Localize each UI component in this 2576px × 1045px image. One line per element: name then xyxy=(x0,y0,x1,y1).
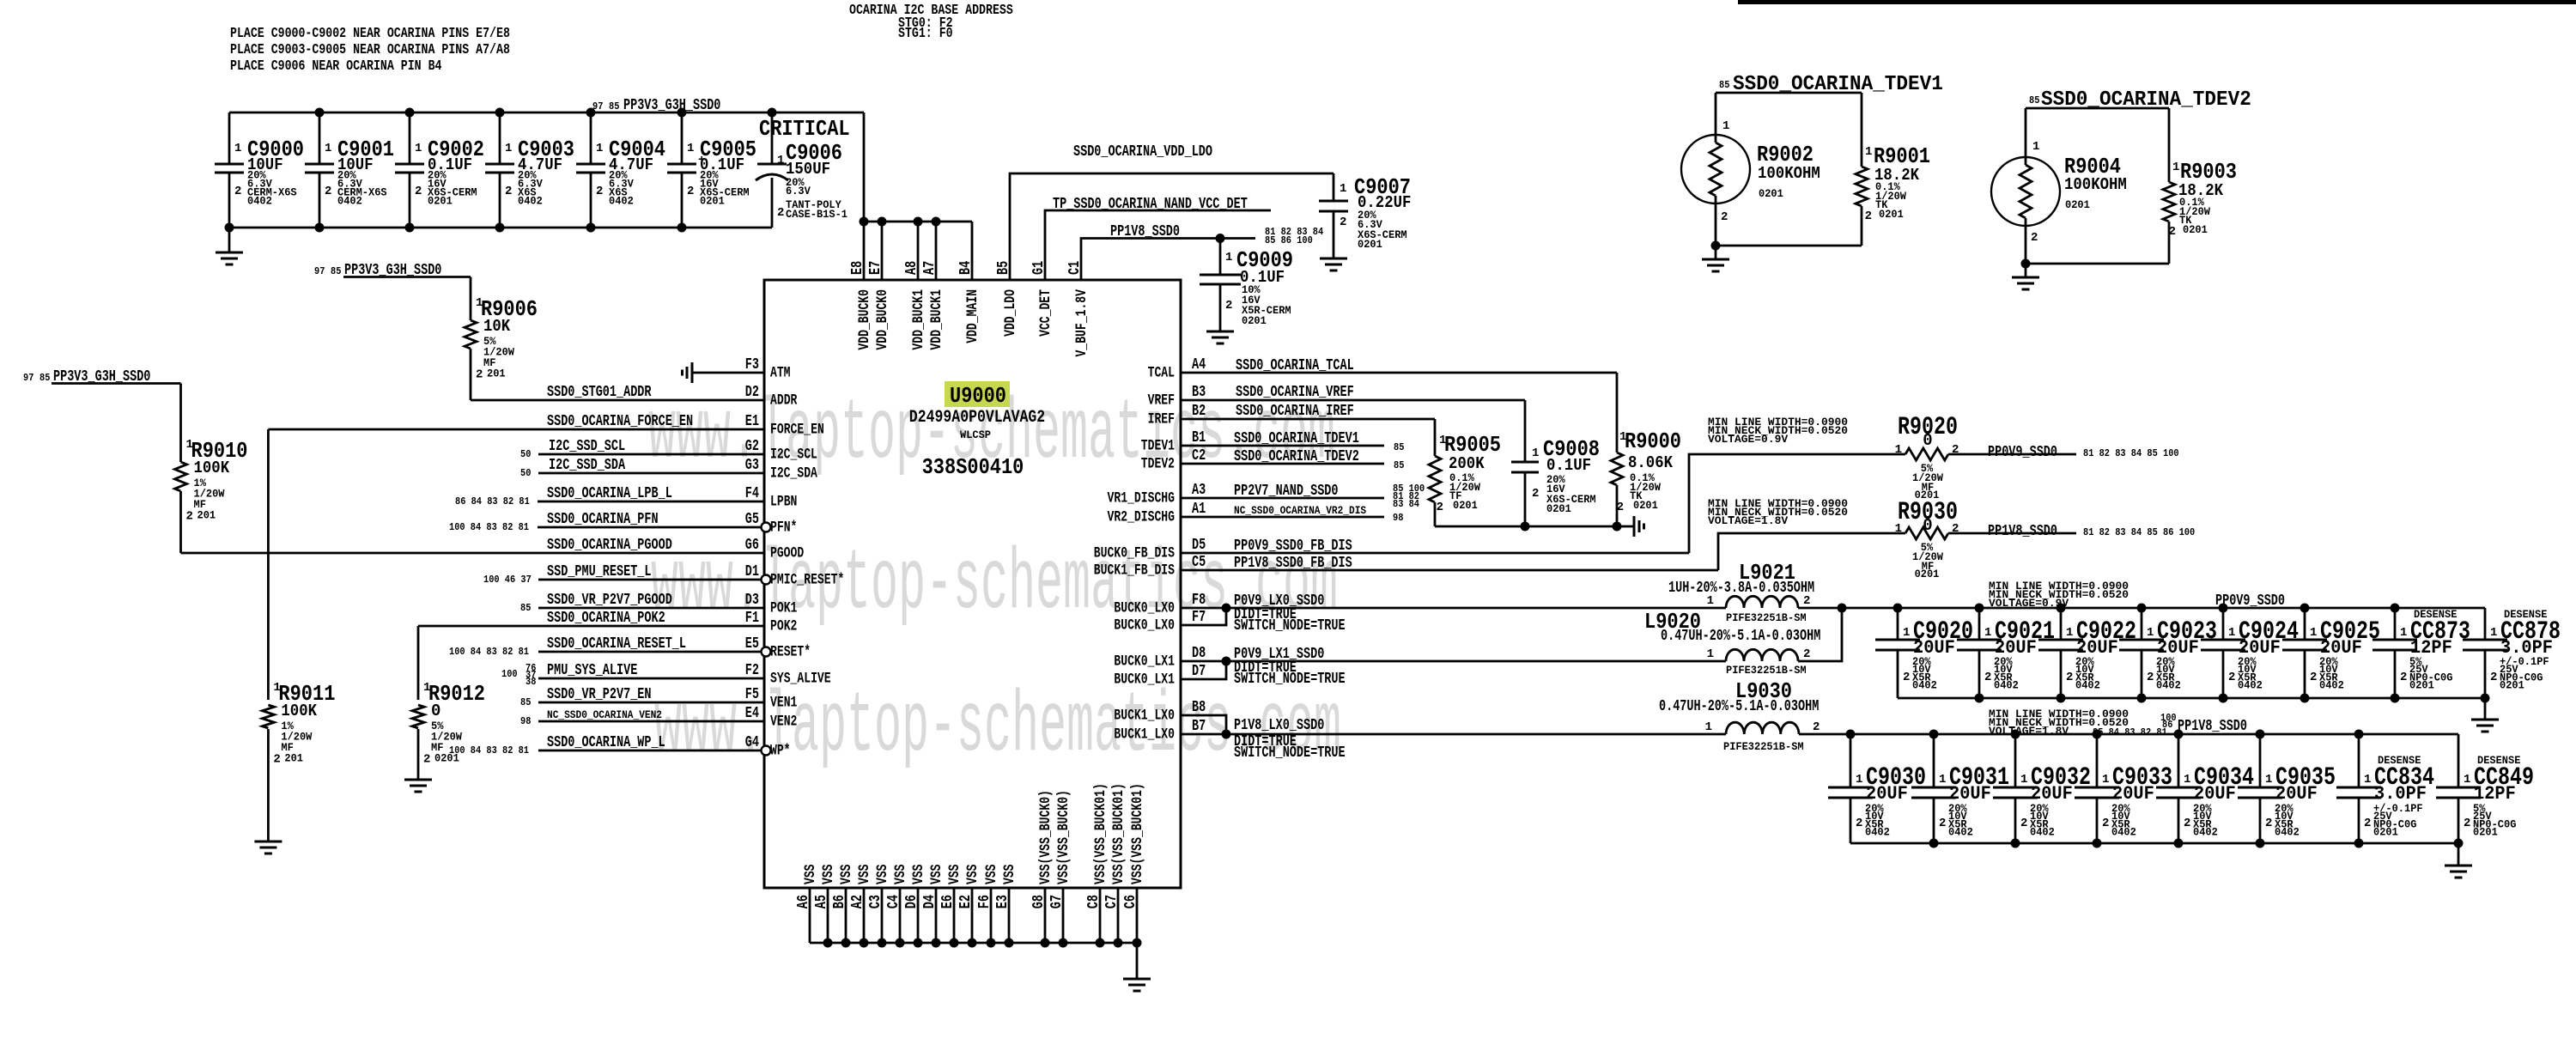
svg-text:2: 2 xyxy=(186,510,193,524)
svg-text:D3: D3 xyxy=(745,592,759,609)
svg-text:SSD0_OCARINA_TDEV1: SSD0_OCARINA_TDEV1 xyxy=(1234,430,1359,447)
svg-text:338S00410: 338S00410 xyxy=(922,454,1024,480)
svg-text:TDEV1: TDEV1 xyxy=(1141,438,1175,455)
svg-text:100K: 100K xyxy=(194,459,230,477)
svg-text:1: 1 xyxy=(1722,119,1729,133)
svg-text:0402: 0402 xyxy=(1948,826,1973,839)
net SSD0_OCARINA_TDEV2 wire xyxy=(2026,107,2169,110)
svg-text:1: 1 xyxy=(325,142,331,155)
svg-text:2: 2 xyxy=(2184,817,2190,830)
svg-text:B7: B7 xyxy=(1192,718,1206,735)
svg-text:2: 2 xyxy=(2490,671,2497,684)
svg-text:VREF: VREF xyxy=(1148,392,1175,410)
svg-text:97: 97 xyxy=(314,265,325,277)
svg-text:2: 2 xyxy=(2066,671,2073,684)
net PP1V8_SSD0 wire xyxy=(1081,239,1255,281)
svg-text:B8: B8 xyxy=(1192,699,1206,716)
svg-text:VDD_LDO: VDD_LDO xyxy=(1002,289,1019,337)
svg-text:VSS(VSS_BUCK0): VSS(VSS_BUCK0) xyxy=(1055,790,1072,884)
svg-text:F4: F4 xyxy=(745,485,759,502)
svg-text:VEN1: VEN1 xyxy=(770,695,797,712)
capacitor C9022 xyxy=(2060,608,2063,640)
svg-text:0201: 0201 xyxy=(2409,679,2434,692)
net PP1V8_SSD0 stub xyxy=(1948,532,2076,535)
svg-text:100 84 83 82 81: 100 84 83 82 81 xyxy=(449,521,529,533)
svg-text:1: 1 xyxy=(2228,626,2235,640)
svg-text:ATM: ATM xyxy=(770,365,791,382)
svg-text:1: 1 xyxy=(2066,626,2073,640)
capacitor CC834 xyxy=(2358,734,2360,787)
resistor R9010 pull-up on PGOOD xyxy=(52,382,181,385)
svg-text:F1: F1 xyxy=(745,610,759,627)
svg-text:VSS: VSS xyxy=(983,865,1000,885)
svg-text:VSS(VSS_BUCK01): VSS(VSS_BUCK01) xyxy=(1129,783,1146,884)
svg-text:VCC_DET: VCC_DET xyxy=(1037,289,1054,337)
wire PP1V8 bank bottom bus xyxy=(1850,842,2458,845)
svg-text:2: 2 xyxy=(1532,487,1539,501)
resistor R9006 pull-up on ADDR xyxy=(343,276,471,278)
svg-text:1: 1 xyxy=(2490,626,2497,640)
svg-text:PP0V9_SSD0_FB_DIS: PP0V9_SSD0_FB_DIS xyxy=(1234,538,1352,555)
svg-text:85: 85 xyxy=(520,696,531,708)
svg-text:NC_SSD0_OCARINA_VEN2: NC_SSD0_OCARINA_VEN2 xyxy=(547,708,662,721)
svg-text:0: 0 xyxy=(431,702,440,720)
svg-text:SSD0_OCARINA_VREF: SSD0_OCARINA_VREF xyxy=(1236,384,1354,401)
svg-text:2: 2 xyxy=(2020,817,2027,830)
pin G7 VSS(VSS_BUCK0) xyxy=(1062,888,1065,943)
svg-text:0201: 0201 xyxy=(2065,198,2090,211)
svg-text:2: 2 xyxy=(2400,671,2407,684)
svg-text:A3: A3 xyxy=(1192,482,1206,499)
svg-text:0201: 0201 xyxy=(2183,223,2208,236)
svg-text:VR2_DISCHG: VR2_DISCHG xyxy=(1108,509,1176,526)
svg-text:G8: G8 xyxy=(1030,895,1048,908)
svg-text:BUCK0_FB_DIS: BUCK0_FB_DIS xyxy=(1094,545,1175,562)
svg-text:0201: 0201 xyxy=(1915,568,1940,580)
svg-text:1UH-20%-3.8A-0.035OHM: 1UH-20%-3.8A-0.035OHM xyxy=(1668,580,1814,597)
ground for PP0V9 bank xyxy=(2484,698,2487,720)
svg-text:85: 85 xyxy=(1394,459,1404,471)
svg-text:SSD0_OCARINA_RESET_L: SSD0_OCARINA_RESET_L xyxy=(547,635,686,653)
ground for PP1V8 bank xyxy=(2458,843,2460,866)
wire L9021 out to PP0V9 rail xyxy=(1798,607,2485,610)
svg-text:2: 2 xyxy=(2031,231,2038,245)
svg-text:PLACE C9006 NEAR OCARINA PIN B: PLACE C9006 NEAR OCARINA PIN B4 xyxy=(230,58,442,75)
svg-text:STG1: F0: STG1: F0 xyxy=(898,26,953,42)
svg-text:0: 0 xyxy=(1923,431,1932,450)
svg-text:98: 98 xyxy=(1393,512,1403,524)
wire R9002/R9001 bottom xyxy=(1716,245,1862,247)
svg-text:PFN*: PFN* xyxy=(770,519,797,537)
svg-text:2: 2 xyxy=(325,185,331,198)
svg-text:0402: 0402 xyxy=(1994,679,2019,692)
capacitor C9031 xyxy=(1933,734,1935,787)
svg-text:1: 1 xyxy=(1895,522,1902,536)
svg-text:SSD0_OCARINA_VDD_LDO: SSD0_OCARINA_VDD_LDO xyxy=(1073,143,1212,161)
svg-text:VDD_BUCK0: VDD_BUCK0 xyxy=(856,289,873,350)
capacitor C9001 xyxy=(319,112,321,164)
svg-text:2: 2 xyxy=(1856,817,1862,830)
svg-text:C4: C4 xyxy=(885,895,902,908)
svg-text:VDD_BUCK0: VDD_BUCK0 xyxy=(874,289,891,350)
capacitor CC873 xyxy=(2394,608,2397,640)
svg-text:F6: F6 xyxy=(976,895,993,908)
capacitor C9006 (tantalum, CRITICAL) xyxy=(771,112,774,164)
svg-text:I2C_SSD_SCL: I2C_SSD_SCL xyxy=(549,438,625,455)
capacitor C9020 xyxy=(1897,608,1899,640)
svg-text:1: 1 xyxy=(505,142,512,155)
svg-text:2: 2 xyxy=(2169,225,2176,239)
svg-text:VSS: VSS xyxy=(892,865,909,885)
svg-text:85 86 100: 85 86 100 xyxy=(1265,234,1313,246)
svg-text:VSS(VSS_BUCK01): VSS(VSS_BUCK01) xyxy=(1110,783,1127,884)
svg-text:G3: G3 xyxy=(745,457,759,474)
svg-text:SSD0_STG01_ADDR: SSD0_STG01_ADDR xyxy=(547,384,652,401)
svg-text:PMIC_RESET*: PMIC_RESET* xyxy=(770,572,844,589)
svg-text:1: 1 xyxy=(2184,773,2190,787)
svg-text:SSD0_OCARINA_FORCE_EN: SSD0_OCARINA_FORCE_EN xyxy=(547,413,693,430)
svg-text:SSD_PMU_RESET_L: SSD_PMU_RESET_L xyxy=(547,563,652,580)
svg-text:0201: 0201 xyxy=(1242,314,1267,327)
svg-text:100K: 100K xyxy=(281,702,317,720)
svg-text:1: 1 xyxy=(2147,626,2154,640)
svg-text:85: 85 xyxy=(2029,94,2039,106)
svg-text:1: 1 xyxy=(1707,647,1714,661)
svg-text:38: 38 xyxy=(526,676,536,688)
svg-text:WP*: WP* xyxy=(770,743,791,760)
svg-text:1: 1 xyxy=(596,142,603,155)
svg-text:LPBN: LPBN xyxy=(770,494,797,511)
svg-text:VDD_BUCK1: VDD_BUCK1 xyxy=(910,289,927,350)
wire analog ground bus for R9005/C9008/R9000 xyxy=(1435,526,1634,528)
svg-text:0402: 0402 xyxy=(2030,826,2055,839)
svg-text:TCAL: TCAL xyxy=(1148,365,1175,382)
svg-text:SSD0_VR_P2V7_PGOOD: SSD0_VR_P2V7_PGOOD xyxy=(547,592,672,609)
capacitor C9024 xyxy=(2222,608,2225,640)
svg-text:G6: G6 xyxy=(745,537,759,554)
svg-text:PLACE C9003-C9005 NEAR OCARINA: PLACE C9003-C9005 NEAR OCARINA PINS A7/A… xyxy=(230,42,510,58)
svg-text:TP_SSD0_OCARINA_NAND_VCC_DET: TP_SSD0_OCARINA_NAND_VCC_DET xyxy=(1053,196,1248,213)
svg-text:PP1V8_SSD0_FB_DIS: PP1V8_SSD0_FB_DIS xyxy=(1234,555,1352,572)
wire C9000 left riser xyxy=(228,112,231,164)
svg-text:8.06K: 8.06K xyxy=(1628,453,1674,472)
svg-text:1: 1 xyxy=(1895,443,1902,457)
svg-text:B1: B1 xyxy=(1192,429,1206,447)
svg-text:E5: E5 xyxy=(745,635,759,653)
svg-text:2: 2 xyxy=(777,206,784,220)
svg-text:G4: G4 xyxy=(745,734,759,751)
pin B6 VSS xyxy=(845,888,848,943)
capacitor C9003 xyxy=(499,112,501,164)
svg-text:0402: 0402 xyxy=(2193,826,2218,839)
svg-text:VOLTAGE=0.9V: VOLTAGE=0.9V xyxy=(1708,433,1788,446)
svg-text:2: 2 xyxy=(1865,210,1872,223)
svg-text:A8: A8 xyxy=(903,261,920,275)
pin E3 VSS xyxy=(1008,888,1011,943)
resistor R9020 (0 ohm) xyxy=(1905,448,1948,460)
svg-text:2: 2 xyxy=(1803,594,1810,608)
svg-text:SYS_ALIVE: SYS_ALIVE xyxy=(770,671,831,688)
svg-text:C6: C6 xyxy=(1122,895,1139,908)
svg-text:100: 100 xyxy=(501,668,518,680)
svg-text:F8: F8 xyxy=(1192,592,1206,609)
svg-text:1: 1 xyxy=(2265,773,2272,787)
svg-text:2: 2 xyxy=(2265,817,2272,830)
svg-text:CRITICAL: CRITICAL xyxy=(759,116,850,142)
svg-text:0402: 0402 xyxy=(2111,826,2136,839)
svg-text:VDD_MAIN: VDD_MAIN xyxy=(964,289,981,343)
wire PP0V9 bank bottom bus xyxy=(1898,697,2485,700)
svg-text:0402: 0402 xyxy=(247,195,272,208)
svg-text:81 82 83 84 85 100: 81 82 83 84 85 100 xyxy=(2083,447,2179,459)
pin A2 VSS xyxy=(863,888,866,943)
svg-text:SSD0_VR_P2V7_EN: SSD0_VR_P2V7_EN xyxy=(547,686,652,703)
pin G8 VSS(VSS_BUCK0) xyxy=(1044,888,1047,943)
capacitor CC849 xyxy=(2458,734,2460,787)
resistor R9011 pull-down on FORCE_EN xyxy=(267,429,270,700)
svg-text:FORCE_EN: FORCE_EN xyxy=(770,422,824,439)
svg-text:A1: A1 xyxy=(1192,501,1206,518)
svg-text:0402: 0402 xyxy=(609,195,634,208)
svg-text:0.1UF: 0.1UF xyxy=(1546,456,1591,475)
svg-text:2: 2 xyxy=(2310,671,2317,684)
svg-text:PIFE32251B-SM: PIFE32251B-SM xyxy=(1723,740,1804,753)
capacitor C9023 xyxy=(2141,608,2143,640)
IC U9000 highlighted refdes xyxy=(945,381,1010,407)
svg-text:SSD0_OCARINA_TCAL: SSD0_OCARINA_TCAL xyxy=(1236,357,1354,374)
svg-text:E7: E7 xyxy=(867,261,884,275)
svg-text:SSD0_OCARINA_PFN: SSD0_OCARINA_PFN xyxy=(547,511,659,528)
svg-text:85: 85 xyxy=(1719,79,1729,91)
svg-text:R9000: R9000 xyxy=(1625,428,1681,454)
svg-text:VSS: VSS xyxy=(964,865,981,885)
svg-text:PP3V3_G3H_SSD0: PP3V3_G3H_SSD0 xyxy=(623,97,720,114)
svg-text:0201: 0201 xyxy=(1633,499,1658,512)
svg-text:SSD0_OCARINA_TDEV2: SSD0_OCARINA_TDEV2 xyxy=(2041,88,2251,112)
svg-text:VSS(VSS_BUCK0): VSS(VSS_BUCK0) xyxy=(1037,790,1054,884)
svg-text:0201: 0201 xyxy=(428,195,453,208)
svg-text:1: 1 xyxy=(2102,773,2109,787)
svg-text:SSD0_OCARINA_PGOOD: SSD0_OCARINA_PGOOD xyxy=(547,537,672,554)
svg-text:BUCK1_LX0: BUCK1_LX0 xyxy=(1114,708,1175,725)
svg-text:2: 2 xyxy=(2102,817,2109,830)
net PP3V3_G3H_SSD0 top bus wire xyxy=(229,112,864,114)
svg-text:1: 1 xyxy=(2364,773,2371,787)
svg-text:2: 2 xyxy=(2364,817,2371,830)
svg-text:0201: 0201 xyxy=(2473,826,2498,839)
wire L9030 out to PP1V8 rail xyxy=(1799,733,2458,736)
svg-text:PIFE32251B-SM: PIFE32251B-SM xyxy=(1726,664,1807,677)
resistor R9005 on IREF xyxy=(1434,419,1437,456)
svg-text:100 84 83 82 81: 100 84 83 82 81 xyxy=(449,646,529,658)
svg-text:VSS: VSS xyxy=(874,865,891,885)
svg-text:2: 2 xyxy=(2464,817,2470,830)
svg-text:PGOOD: PGOOD xyxy=(770,545,804,562)
svg-text:10K: 10K xyxy=(483,317,511,336)
svg-text:B6: B6 xyxy=(831,895,848,908)
pin D6 VSS xyxy=(917,888,920,943)
thermistor R9004 xyxy=(2025,108,2027,165)
svg-text:1: 1 xyxy=(1225,251,1232,264)
svg-text:B3: B3 xyxy=(1192,384,1206,401)
svg-text:VSS: VSS xyxy=(838,865,855,885)
svg-text:2: 2 xyxy=(1437,501,1443,514)
svg-text:86 84 83 82 81: 86 84 83 82 81 xyxy=(455,495,530,507)
svg-text:SSD0_OCARINA_IREF: SSD0_OCARINA_IREF xyxy=(1236,403,1354,420)
svg-text:BUCK1_FB_DIS: BUCK1_FB_DIS xyxy=(1094,562,1175,580)
svg-text:WLCSP: WLCSP xyxy=(960,428,991,441)
svg-text:50: 50 xyxy=(520,448,531,460)
svg-text:0402: 0402 xyxy=(1912,679,1937,692)
svg-text:VR1_DISCHG: VR1_DISCHG xyxy=(1108,490,1176,507)
resistor R9000 on TCAL xyxy=(1616,373,1619,453)
svg-text:F5: F5 xyxy=(745,686,759,703)
capacitor C9032 xyxy=(2014,734,2017,787)
svg-text:VSS: VSS xyxy=(856,865,873,885)
svg-text:NC_SSD0_OCARINA_VR2_DIS: NC_SSD0_OCARINA_VR2_DIS xyxy=(1234,504,1366,517)
svg-text:E1: E1 xyxy=(745,413,759,430)
svg-text:200K: 200K xyxy=(1449,454,1485,473)
svg-text:0.47UH-20%-5.1A-0.03OHM: 0.47UH-20%-5.1A-0.03OHM xyxy=(1659,698,1819,715)
svg-text:85: 85 xyxy=(1394,441,1404,453)
ground under R9002 xyxy=(1715,246,1717,259)
svg-text:2: 2 xyxy=(1803,647,1810,661)
svg-text:1: 1 xyxy=(1903,626,1910,640)
svg-text:2: 2 xyxy=(1617,501,1624,514)
pin A5 VSS xyxy=(827,888,829,943)
svg-text:IREF: IREF xyxy=(1148,411,1175,428)
svg-text:1: 1 xyxy=(2464,773,2470,787)
ground under cap bank xyxy=(228,228,231,252)
svg-text:SSD0_OCARINA_WP_L: SSD0_OCARINA_WP_L xyxy=(547,734,665,751)
svg-text:VOLTAGE=1.8V: VOLTAGE=1.8V xyxy=(1708,514,1788,527)
svg-text:PP1V8_SSD0: PP1V8_SSD0 xyxy=(2178,718,2247,735)
svg-text:0.47UH-20%-5.1A-0.03OHM: 0.47UH-20%-5.1A-0.03OHM xyxy=(1661,628,1820,645)
svg-text:2: 2 xyxy=(1225,299,1232,313)
capacitor C9002 xyxy=(409,112,411,164)
svg-text:B2: B2 xyxy=(1192,403,1206,420)
svg-text:I2C_SDA: I2C_SDA xyxy=(770,465,817,483)
pin E7 VDD_BUCK0 xyxy=(881,222,884,280)
svg-text:C8: C8 xyxy=(1085,895,1103,908)
ground for VSS bus xyxy=(1136,943,1139,979)
capacitor C9035 xyxy=(2259,734,2262,787)
inductor L9030 xyxy=(1726,722,1799,734)
svg-text:2: 2 xyxy=(1939,817,1946,830)
svg-text:0201: 0201 xyxy=(2373,826,2398,839)
svg-text:PP1V8_SSD0: PP1V8_SSD0 xyxy=(1110,223,1180,240)
svg-text:PLACE C9000-C9002 NEAR OCARINA: PLACE C9000-C9002 NEAR OCARINA PINS E7/E… xyxy=(230,26,510,42)
inductor L9020 xyxy=(1726,649,1798,661)
svg-text:BUCK0_LX0: BUCK0_LX0 xyxy=(1114,617,1175,635)
svg-text:BUCK1_LX0: BUCK1_LX0 xyxy=(1114,726,1175,744)
svg-text:E4: E4 xyxy=(745,705,759,722)
svg-text:D5: D5 xyxy=(1192,537,1206,554)
svg-text:VSS: VSS xyxy=(820,865,837,885)
svg-text:0402: 0402 xyxy=(2156,679,2181,692)
svg-text:C2: C2 xyxy=(1192,447,1206,465)
svg-text:85: 85 xyxy=(39,372,50,384)
svg-text:1: 1 xyxy=(415,142,422,155)
svg-text:100KOHM: 100KOHM xyxy=(2064,175,2127,194)
svg-text:TDEV2: TDEV2 xyxy=(1141,456,1175,473)
svg-text:85: 85 xyxy=(520,602,531,614)
wire VDD pin bus xyxy=(864,221,972,223)
svg-text:C7: C7 xyxy=(1103,895,1121,908)
svg-text:100KOHM: 100KOHM xyxy=(1758,164,1820,183)
svg-text:2: 2 xyxy=(1903,671,1910,684)
svg-text:0402: 0402 xyxy=(2075,679,2100,692)
svg-text:SSD0_OCARINA_POK2: SSD0_OCARINA_POK2 xyxy=(547,610,665,627)
svg-text:2: 2 xyxy=(687,185,694,198)
svg-text:VSS: VSS xyxy=(946,865,963,885)
svg-text:100 46 37: 100 46 37 xyxy=(483,574,532,586)
svg-text:VSS: VSS xyxy=(802,865,819,885)
svg-text:1: 1 xyxy=(1865,145,1872,159)
svg-text:F7: F7 xyxy=(1192,609,1206,626)
wire bottom bus of cap bank xyxy=(229,227,772,229)
svg-text:PP1V8_SSD0: PP1V8_SSD0 xyxy=(1988,523,2057,540)
svg-text:1: 1 xyxy=(1856,773,1862,787)
inductor L9021 xyxy=(1726,596,1798,608)
svg-text:0402: 0402 xyxy=(518,195,543,208)
svg-text:2: 2 xyxy=(1984,671,1991,684)
svg-text:85: 85 xyxy=(331,265,341,277)
svg-text:100 84 83 82 81: 100 84 83 82 81 xyxy=(449,744,529,756)
svg-text:U9000: U9000 xyxy=(950,383,1006,409)
net PP0V9_SSD0 stub xyxy=(1948,453,2076,456)
svg-text:2: 2 xyxy=(1340,216,1346,229)
wire R9004/R9003 bottom xyxy=(2026,263,2169,265)
svg-text:0402: 0402 xyxy=(1865,826,1890,839)
svg-text:50: 50 xyxy=(520,467,531,479)
svg-text:I2C_SCL: I2C_SCL xyxy=(770,447,817,464)
svg-text:A5: A5 xyxy=(813,895,830,908)
svg-text:VDD_BUCK1: VDD_BUCK1 xyxy=(928,289,945,350)
svg-text:1: 1 xyxy=(2020,773,2027,787)
svg-text:+: + xyxy=(698,154,705,167)
resistor R9001 xyxy=(1861,93,1863,167)
pin A8 VDD_BUCK1 xyxy=(917,222,920,280)
svg-text:1: 1 xyxy=(2400,626,2407,640)
svg-text:201: 201 xyxy=(284,752,303,765)
svg-text:BUCK0_LX1: BUCK0_LX1 xyxy=(1114,653,1175,671)
svg-text:F3: F3 xyxy=(745,356,759,374)
svg-text:0201: 0201 xyxy=(1453,499,1478,512)
svg-text:2: 2 xyxy=(273,753,280,767)
svg-text:1: 1 xyxy=(1707,594,1714,608)
svg-text:D6: D6 xyxy=(903,895,920,908)
svg-text:1: 1 xyxy=(1984,626,1991,640)
capacitor C9034 xyxy=(2178,734,2180,787)
svg-text:G2: G2 xyxy=(745,438,759,455)
svg-text:2: 2 xyxy=(415,185,422,198)
svg-text:2: 2 xyxy=(2147,671,2154,684)
pin C7 VSS(VSS_BUCK01) xyxy=(1117,888,1120,943)
svg-text:0402: 0402 xyxy=(2238,679,2263,692)
resistor R9030 (0 ohm) xyxy=(1905,527,1948,539)
svg-text:2: 2 xyxy=(2228,671,2235,684)
svg-text:V_BUF_1.8V: V_BUF_1.8V xyxy=(1073,289,1091,357)
svg-text:A7: A7 xyxy=(921,261,939,275)
pin C8 VSS(VSS_BUCK01) xyxy=(1099,888,1102,943)
svg-text:1: 1 xyxy=(1705,720,1712,734)
svg-text:1: 1 xyxy=(777,154,784,167)
capacitor C9004 xyxy=(590,112,592,164)
svg-text:F2: F2 xyxy=(745,662,759,679)
svg-text:VSS(VSS_BUCK01): VSS(VSS_BUCK01) xyxy=(1092,783,1109,884)
net PP1V8 feedback wire to R9030 xyxy=(1718,533,1905,570)
